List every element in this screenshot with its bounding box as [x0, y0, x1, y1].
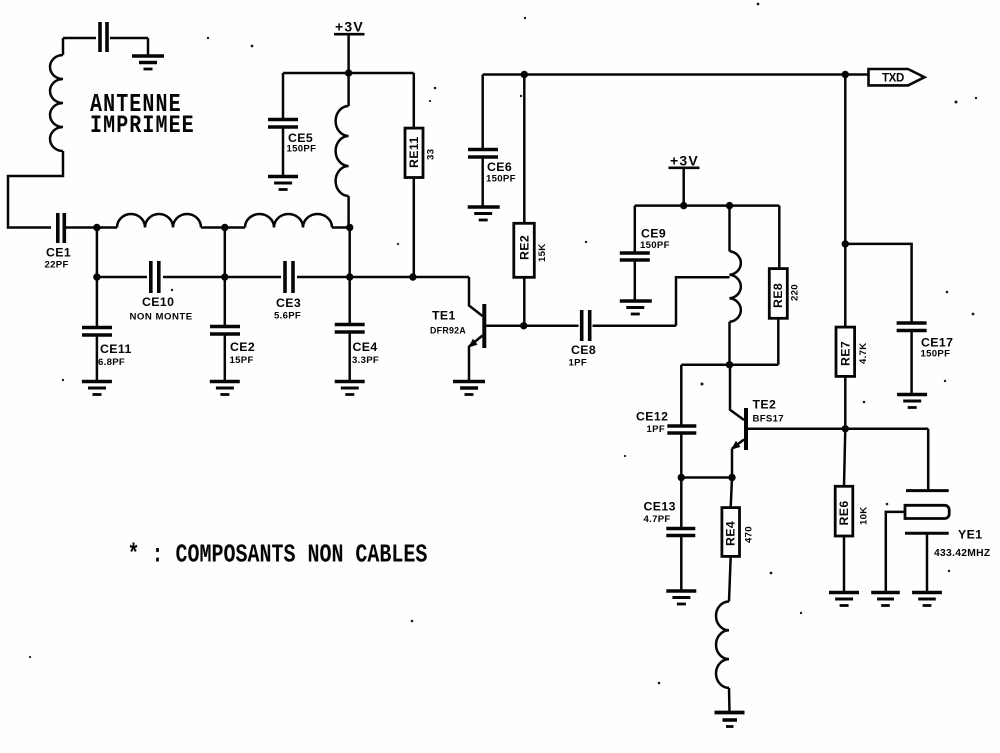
- ground CE2: [210, 382, 240, 395]
- ground (antenna cap): [132, 38, 164, 69]
- svg-text:1PF: 1PF: [647, 424, 666, 435]
- svg-text:150PF: 150PF: [921, 349, 951, 360]
- svg-text:470: 470: [744, 526, 755, 543]
- resistor RE2 15K: [514, 75, 548, 326]
- svg-text:RE8: RE8: [771, 283, 785, 308]
- svg-text:5.6PF: 5.6PF: [274, 311, 301, 322]
- capacitor CE3 5.6PF: [274, 261, 301, 322]
- ground CE17: [897, 395, 927, 408]
- capacitor CE13 4.7PF: [644, 478, 696, 592]
- node J1: [93, 224, 100, 231]
- capacitor (antenna top coupling): [63, 22, 148, 52]
- node line emitter (y=477.5): [681, 476, 732, 479]
- svg-text:150PF: 150PF: [287, 144, 317, 155]
- svg-text:CE13: CE13: [644, 500, 676, 514]
- svg-text:CE8: CE8: [571, 343, 596, 357]
- svg-text:BFS17: BFS17: [753, 414, 784, 425]
- ground CE6: [468, 207, 500, 220]
- wire TXD rail: [483, 75, 876, 150]
- node RE7 top: [842, 240, 849, 247]
- wire TXD branch down: [844, 75, 847, 244]
- wire +3V rail: [283, 72, 414, 75]
- node dots on line B: [93, 273, 416, 280]
- svg-text:CE9: CE9: [641, 227, 666, 241]
- svg-text:CE12: CE12: [636, 410, 668, 424]
- node line collector (y=364.8): [681, 364, 778, 367]
- resistor RE8 220: [769, 206, 800, 365]
- svg-text:15PF: 15PF: [230, 355, 254, 366]
- resistor RE6 10K: [835, 429, 869, 593]
- wire base to CE8: [524, 325, 579, 328]
- capacitor CE2 15PF: [210, 277, 255, 382]
- node J3: [346, 224, 353, 231]
- ground crystal case: [871, 593, 900, 606]
- transistor TE1 DFR92A: [430, 277, 524, 382]
- svg-text:4.7PF: 4.7PF: [644, 514, 671, 525]
- svg-text:CE11: CE11: [100, 342, 132, 356]
- inductor L2: [225, 214, 350, 228]
- ground TE1 emitter: [453, 382, 485, 395]
- node +3V left: [345, 69, 352, 76]
- svg-text:* : COMPOSANTS NON CABLES: * : COMPOSANTS NON CABLES: [128, 540, 428, 569]
- svg-text:IMPRIMEE: IMPRIMEE: [90, 111, 195, 140]
- svg-text:RE11: RE11: [407, 136, 421, 168]
- svg-text:4.7K: 4.7K: [858, 343, 869, 364]
- svg-text:CE17: CE17: [921, 336, 953, 350]
- svg-text:10K: 10K: [858, 507, 869, 526]
- inductor (middle, +3V feed): [336, 73, 350, 277]
- svg-text:+3V: +3V: [335, 19, 364, 35]
- ground crystal bottom: [912, 593, 942, 606]
- svg-text:+3V: +3V: [670, 153, 699, 169]
- resistor RE7 4.7K: [836, 244, 869, 429]
- ground CE13: [666, 591, 696, 604]
- node TE2 base / RE7: [842, 425, 849, 432]
- svg-text:6.8PF: 6.8PF: [98, 357, 125, 368]
- svg-text:TE1: TE1: [432, 309, 456, 323]
- inductor (emitter, bottom): [716, 602, 730, 713]
- resistor RE4 470: [722, 478, 755, 602]
- svg-text:TXD: TXD: [882, 72, 904, 84]
- crystal YE1 433.42MHZ: [886, 429, 991, 593]
- capacitor CE1 22PF: [45, 213, 97, 271]
- svg-text:RE4: RE4: [724, 521, 738, 546]
- svg-text:15K: 15K: [537, 244, 548, 263]
- power +3V (left): [334, 19, 365, 74]
- connector TXD: [869, 69, 925, 85]
- svg-text:NON MONTE: NON MONTE: [130, 312, 193, 323]
- svg-text:RE6: RE6: [837, 500, 851, 525]
- wire +3V right rail: [635, 204, 780, 207]
- capacitor CE17 150PF: [897, 323, 954, 395]
- svg-text:RE7: RE7: [838, 341, 852, 366]
- power +3V (right): [669, 153, 700, 206]
- wire J2 down: [224, 228, 227, 278]
- ground bottom coil: [715, 713, 745, 727]
- svg-text:TE2: TE2: [753, 398, 777, 412]
- resistor RE11 33: [405, 73, 437, 277]
- wire to CE17: [845, 244, 911, 323]
- svg-text:RE2: RE2: [517, 235, 531, 260]
- svg-text:33: 33: [426, 149, 437, 160]
- ground RE6: [829, 593, 859, 606]
- ground CE4: [335, 382, 365, 395]
- svg-text:3.3PF: 3.3PF: [352, 355, 379, 366]
- label ANTENNE IMPRIMEE: [90, 90, 195, 140]
- capacitor CE12 1PF: [636, 365, 696, 478]
- capacitor CE6 150PF: [468, 150, 516, 208]
- ground CE11: [82, 382, 112, 395]
- capacitor CE8 1PF: [569, 310, 677, 369]
- ground CE5: [268, 177, 298, 190]
- svg-text:YE1: YE1: [958, 528, 982, 542]
- wire J1 down: [96, 228, 99, 278]
- svg-text:150PF: 150PF: [486, 174, 516, 185]
- svg-text:CE10: CE10: [142, 295, 174, 309]
- capacitor CE11 6.8PF: [82, 277, 132, 382]
- node TXD branch: [842, 71, 849, 78]
- inductor antenna (ANTENNE IMPRIMEE): [50, 38, 63, 151]
- svg-text:220: 220: [790, 284, 801, 301]
- node osc coil top: [726, 202, 733, 209]
- note COMPOSANTS NON CABLES: [128, 540, 428, 569]
- node J2: [221, 224, 228, 231]
- capacitor CE9 150PF: [620, 206, 670, 301]
- node CE13: [678, 474, 685, 481]
- node TE1 base: [520, 322, 527, 329]
- svg-text:150PF: 150PF: [640, 240, 670, 251]
- ground CE9: [620, 301, 652, 314]
- capacitor CE4 3.3PF: [335, 277, 379, 382]
- svg-text:CE3: CE3: [276, 296, 301, 310]
- node RE2 top: [521, 71, 528, 78]
- svg-text:CE2: CE2: [230, 340, 255, 354]
- wire CE8 to oscillator coil tap: [676, 277, 730, 326]
- svg-text:CE1: CE1: [46, 246, 71, 260]
- node RE4: [728, 474, 735, 481]
- node osc: [726, 361, 733, 368]
- svg-text:CE4: CE4: [353, 340, 378, 354]
- svg-text:DFR92A: DFR92A: [430, 326, 466, 336]
- wire antenna to CE1: [8, 151, 63, 228]
- svg-text:22PF: 22PF: [45, 260, 69, 271]
- node +3V right: [680, 202, 687, 209]
- capacitor CE5 150PF: [268, 73, 316, 177]
- transistor TE2 BFS17: [730, 365, 928, 478]
- svg-text:433.42MHZ: 433.42MHZ: [934, 548, 991, 559]
- inductor oscillator: [730, 206, 741, 365]
- capacitor CE10 NON MONTE: [130, 261, 193, 323]
- node line B (y=277): [97, 276, 469, 279]
- svg-text:1PF: 1PF: [569, 358, 588, 369]
- svg-text:CE6: CE6: [487, 160, 512, 174]
- inductor L1: [97, 214, 225, 228]
